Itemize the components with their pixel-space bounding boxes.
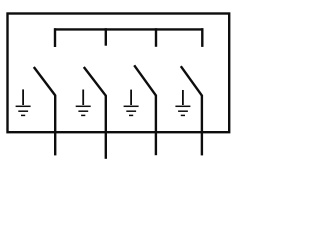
ground G2 (76, 90, 91, 116)
busbar (54, 28, 203, 30)
ground G4 (175, 90, 190, 115)
wire: feeder 4 (201, 95, 203, 155)
wire: bus drop 4 (201, 28, 203, 47)
ground G3 (124, 90, 139, 116)
switch S3 blade (134, 65, 156, 95)
enclosure outline (8, 14, 230, 133)
wire: bus drop 1 (54, 28, 56, 47)
switch S2 blade (84, 67, 106, 96)
wire: bus drop 2 (105, 28, 107, 46)
wire: feeder 1 (54, 95, 56, 156)
switch S4 blade (181, 66, 202, 95)
switch S1 blade (34, 67, 55, 95)
wire: feeder 3 (155, 95, 157, 155)
wire: bus drop 3 (155, 28, 157, 47)
wire: feeder 2 (105, 95, 107, 159)
ground G1 (16, 89, 31, 115)
